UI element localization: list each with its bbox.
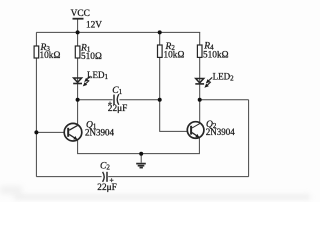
svg-text:22μF: 22μF	[108, 104, 127, 114]
svg-text:510Ω: 510Ω	[81, 52, 102, 62]
svg-text:510kΩ: 510kΩ	[203, 51, 229, 61]
svg-text:10kΩ: 10kΩ	[164, 50, 185, 60]
svg-text:LED1: LED1	[87, 70, 109, 81]
svg-text:22μF: 22μF	[97, 183, 116, 193]
svg-text:12V: 12V	[86, 21, 102, 31]
svg-text:2N3904: 2N3904	[85, 127, 114, 137]
svg-text:10kΩ: 10kΩ	[40, 51, 61, 61]
svg-text:VCC: VCC	[71, 9, 90, 19]
svg-text:C2: C2	[100, 161, 110, 171]
svg-text:LED2: LED2	[213, 72, 235, 83]
svg-text:2N3904: 2N3904	[206, 127, 235, 137]
svg-text:C1: C1	[112, 86, 122, 96]
